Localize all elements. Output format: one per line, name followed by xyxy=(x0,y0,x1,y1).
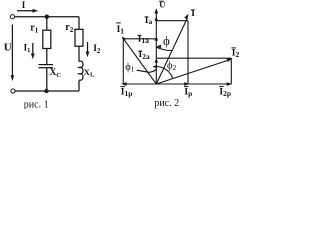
svg-text:U: U xyxy=(4,41,12,53)
vector I (total current) xyxy=(156,18,187,84)
angle phi2 arc xyxy=(156,67,172,79)
arrow I2 (branch 2, down) xyxy=(87,42,89,54)
wire right branch down to r2 xyxy=(78,17,80,30)
phasor I1a arrowhead on axis xyxy=(154,36,158,40)
inductor XL coil xyxy=(79,61,83,80)
projection line I1 tip vertical xyxy=(122,39,124,84)
svg-text:Ip: Ip xyxy=(184,87,192,98)
angle phi arc xyxy=(156,47,171,51)
svg-text:I2: I2 xyxy=(232,48,240,59)
baseline (reactive axis) xyxy=(122,83,232,85)
svg-text:I1p: I1p xyxy=(121,87,133,98)
svg-text:I2p: I2p xyxy=(219,87,231,98)
arrow I1 (branch 1, down) xyxy=(32,43,34,56)
angle phi1 arc xyxy=(148,70,157,73)
wire capacitor to bottom xyxy=(46,68,48,91)
resistor r1 xyxy=(43,30,51,48)
phi1 leader line xyxy=(137,70,149,72)
svg-text:рис. 1: рис. 1 xyxy=(24,100,49,109)
vector I1 xyxy=(124,40,156,85)
terminal top-left xyxy=(10,15,14,19)
arrow I2p (right) xyxy=(227,82,232,86)
projection line I tip vertical xyxy=(187,21,189,84)
terminal bottom-left xyxy=(11,89,15,93)
svg-text:I1: I1 xyxy=(117,25,125,36)
projection line I2 tip vertical xyxy=(230,58,232,84)
arrow I (current into circuit) xyxy=(17,10,35,12)
svg-text:ϕ: ϕ xyxy=(163,33,170,48)
svg-text:рис. 2: рис. 2 xyxy=(154,98,179,109)
arrow Ip (right) xyxy=(184,82,189,86)
vector I2 xyxy=(156,60,229,84)
wire branch1 down to r1 xyxy=(46,17,48,31)
phasor I2a arrowhead on axis xyxy=(154,58,158,62)
svg-text:I: I xyxy=(191,9,195,19)
wire r1 to capacitor xyxy=(46,49,48,65)
phasor Ia arrowhead on axis xyxy=(154,16,158,21)
projection line I tip horizontal xyxy=(156,20,188,22)
wire coil to bottom xyxy=(78,81,80,91)
vector U axis (vertical) xyxy=(155,12,157,84)
svg-text:I: I xyxy=(22,0,26,10)
wire top xyxy=(15,16,79,18)
resistor r2 xyxy=(75,29,83,46)
node B junction dot bottom xyxy=(44,89,48,93)
projection line I2 tip horizontal xyxy=(156,57,231,59)
projection line I1 tip horizontal xyxy=(125,38,156,40)
node A junction dot top xyxy=(45,15,49,19)
arrow U (voltage, down) xyxy=(11,25,13,78)
wire r2 to coil xyxy=(78,46,80,62)
capacitor XC xyxy=(39,64,54,66)
wire bottom xyxy=(15,90,79,92)
svg-text:I1a: I1a xyxy=(138,35,149,46)
arrow I1p (left) xyxy=(121,82,126,86)
